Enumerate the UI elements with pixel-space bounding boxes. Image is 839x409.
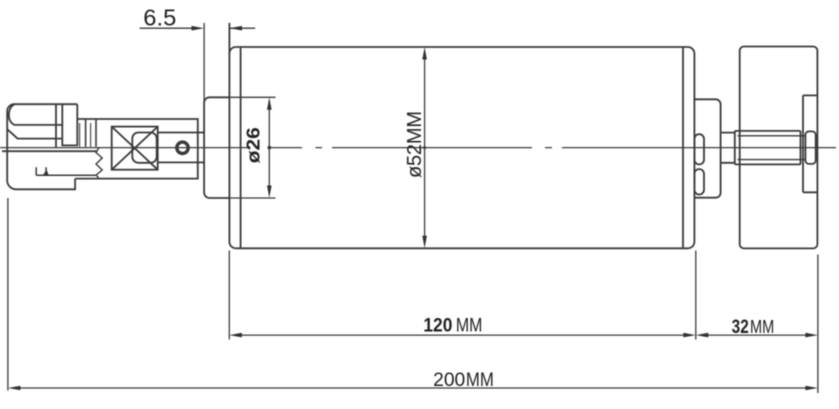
svg-text:200: 200 (433, 369, 465, 391)
svg-text:ø26: ø26 (244, 127, 264, 163)
svg-text:32: 32 (732, 317, 749, 338)
svg-text:ø52MM: ø52MM (404, 111, 426, 178)
svg-text:MM: MM (466, 370, 494, 391)
svg-text:120: 120 (423, 315, 452, 337)
svg-text:MM: MM (750, 316, 774, 337)
svg-text:6.5: 6.5 (143, 5, 176, 31)
svg-text:MM: MM (456, 316, 483, 337)
